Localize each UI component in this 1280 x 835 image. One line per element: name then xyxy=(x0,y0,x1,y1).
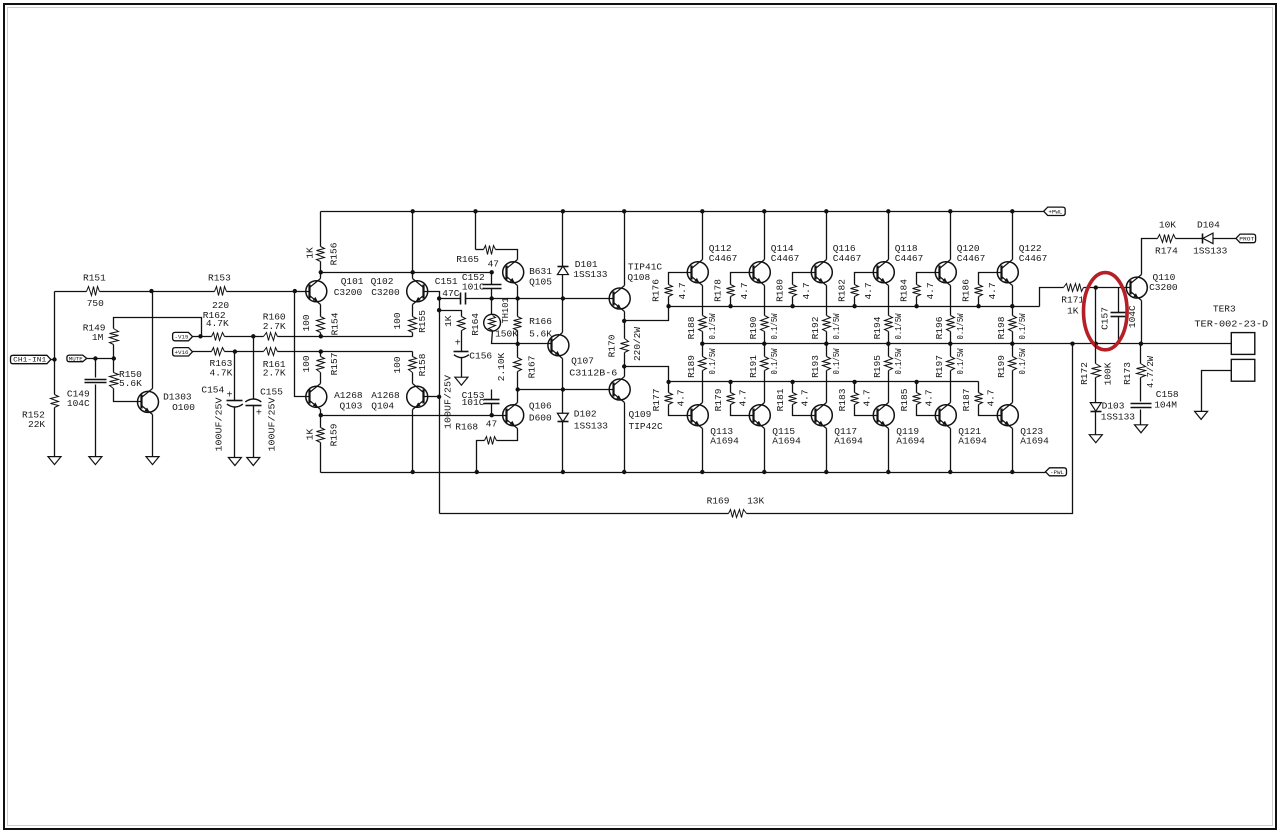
svg-text:C157: C157 xyxy=(1100,307,1111,330)
wire Q120 base xyxy=(917,273,940,285)
wire R154 bottom xyxy=(320,333,322,337)
wire R158 stub xyxy=(412,352,414,357)
svg-text:R174: R174 xyxy=(1155,246,1178,257)
wire R179 to rail xyxy=(730,382,732,393)
resistor R168 47 xyxy=(485,437,497,445)
wire R197 to Q121 emitter xyxy=(950,371,952,403)
svg-text:O100: O100 xyxy=(172,402,195,413)
resistor R151 xyxy=(87,287,100,296)
wire R164 to C156 xyxy=(461,331,463,352)
svg-text:C3200: C3200 xyxy=(371,287,400,298)
wire -V15 line b xyxy=(225,336,264,338)
wire Q115 collector xyxy=(764,429,766,473)
svg-text:C4467: C4467 xyxy=(895,253,924,264)
svg-text:150K: 150K xyxy=(495,329,518,340)
svg-text:1K: 1K xyxy=(305,429,316,441)
transistor Q122 C4467 xyxy=(997,262,1018,283)
wire mute line xyxy=(87,358,114,360)
wire R165 drop xyxy=(475,212,477,250)
svg-text:0.1/5W: 0.1/5W xyxy=(1017,313,1028,339)
ground C155 xyxy=(247,458,260,466)
node R166 bottom xyxy=(516,342,520,346)
svg-text:2.7K: 2.7K xyxy=(263,321,286,332)
svg-text:D104: D104 xyxy=(1197,219,1220,230)
svg-text:1SS133: 1SS133 xyxy=(1101,412,1136,423)
wire input riser xyxy=(54,292,56,360)
node R186 rail xyxy=(976,304,980,308)
svg-text:B631: B631 xyxy=(529,266,552,277)
node R183 rail xyxy=(852,380,856,384)
node R179 rail xyxy=(728,380,732,384)
node R182 rail xyxy=(852,304,856,308)
svg-text:4.7: 4.7 xyxy=(987,282,998,299)
svg-text:R196: R196 xyxy=(934,316,945,339)
transistor D1303 O100 xyxy=(138,391,159,412)
resistor R159 1K xyxy=(317,428,325,443)
node R180 rail xyxy=(790,304,794,308)
svg-text:D102: D102 xyxy=(574,409,597,420)
svg-text:1K: 1K xyxy=(443,315,454,327)
svg-text:TIP42C: TIP42C xyxy=(629,421,664,432)
svg-text:Q108: Q108 xyxy=(627,272,650,283)
node R154 bottom xyxy=(319,334,323,338)
svg-text:R179: R179 xyxy=(713,388,724,411)
wire C149 upper xyxy=(95,359,97,378)
wire R152 top xyxy=(54,360,56,395)
wire R185 to rail xyxy=(916,382,918,393)
wire R193 to Q117 emitter xyxy=(826,371,828,403)
svg-text:2.7K: 2.7K xyxy=(263,368,286,379)
node C155 tap xyxy=(251,334,255,338)
svg-text:TER-002-23-D: TER-002-23-D xyxy=(1194,319,1268,330)
wire Q110 emitter xyxy=(1141,301,1143,344)
svg-text:A1694: A1694 xyxy=(710,436,739,447)
wire Q110 collector riser xyxy=(1142,239,1158,275)
wire R158 to Q104 xyxy=(412,373,414,384)
svg-text:R156: R156 xyxy=(328,242,339,265)
wire Q122 collector xyxy=(1012,212,1014,260)
wire R164 jog xyxy=(440,311,462,317)
node feedback top xyxy=(437,296,441,300)
resistor R181 4.7 xyxy=(789,393,797,405)
transistor Q120 C4467 xyxy=(935,262,956,283)
svg-text:100: 100 xyxy=(301,355,312,372)
resistor R167 2.10K xyxy=(517,344,519,358)
svg-text:+: + xyxy=(455,338,461,349)
node Q103 collector line xyxy=(319,413,323,417)
svg-text:C4467: C4467 xyxy=(833,253,862,264)
wire Q118 emitter xyxy=(888,286,890,316)
wire upper base rail xyxy=(669,306,1040,308)
transistor Q118 C4467 xyxy=(873,262,894,283)
svg-text:C4467: C4467 xyxy=(771,253,800,264)
svg-text:47: 47 xyxy=(486,419,497,430)
svg-text:0.1/5W: 0.1/5W xyxy=(769,348,780,374)
resistor R169 13K xyxy=(729,510,747,518)
wire R187 to rail xyxy=(978,382,980,393)
svg-text:13K: 13K xyxy=(747,496,764,507)
connector TER3 pin 2 xyxy=(1231,359,1255,381)
transistor Q102 C3200 xyxy=(407,281,428,302)
node R172 output rail xyxy=(1094,342,1098,346)
node C152 bottom xyxy=(490,296,494,300)
wire R152 to ground xyxy=(54,408,56,457)
resistor R196 0.1/5W xyxy=(947,316,955,332)
wire Q103 collector to line xyxy=(320,410,322,428)
wire D104 to PROT xyxy=(1213,238,1237,240)
svg-text:R167: R167 xyxy=(527,356,538,379)
wire Q103 base drop xyxy=(295,292,310,397)
svg-text:0.1/5W: 0.1/5W xyxy=(831,348,842,374)
resistor R186 4.7 xyxy=(975,285,983,297)
tag +PWL xyxy=(1044,207,1066,215)
wire Q106 base line xyxy=(321,415,507,417)
wire R178 to rail xyxy=(730,297,732,307)
wire TER3 pin2 to ground xyxy=(1202,371,1232,412)
svg-text:R181: R181 xyxy=(775,388,786,411)
node R150 top xyxy=(112,356,116,360)
node R151/R153 xyxy=(149,289,153,293)
node top rail col Q122 xyxy=(1010,209,1014,213)
svg-text:R172: R172 xyxy=(1079,362,1090,385)
svg-text:R193: R193 xyxy=(810,355,821,378)
ground D1303 xyxy=(146,457,159,465)
node C152 top xyxy=(490,270,494,274)
wire Q102 collector riser xyxy=(412,212,414,279)
wire Q114 collector xyxy=(764,212,766,260)
wire Q118 collector xyxy=(888,212,890,260)
svg-text:0.1/5W: 0.1/5W xyxy=(769,313,780,339)
diode D104 1SS133 xyxy=(1203,233,1213,244)
wire Q112 base xyxy=(669,273,692,285)
node R172 top xyxy=(1094,285,1098,289)
svg-text:0.1/5W: 0.1/5W xyxy=(893,348,904,374)
ground C154 xyxy=(228,458,241,466)
wire Q101 emitter xyxy=(320,305,322,317)
wire Q122 emitter xyxy=(1012,286,1014,316)
node Q102 top rail xyxy=(411,209,415,213)
capacitor C151 47C xyxy=(460,293,462,305)
svg-text:4.7K: 4.7K xyxy=(210,368,233,379)
svg-text:10K: 10K xyxy=(1159,219,1176,230)
wire R150 upper xyxy=(113,359,115,373)
svg-text:D1303: D1303 xyxy=(163,392,192,403)
svg-text:4.7: 4.7 xyxy=(800,389,811,406)
wire R195 to Q119 emitter xyxy=(888,371,890,403)
svg-text:R183: R183 xyxy=(837,388,848,411)
node output rail Q120 xyxy=(948,342,952,346)
node top rail col Q118 xyxy=(886,209,890,213)
wire Q113 collector xyxy=(702,429,704,473)
node output rail Q122 xyxy=(1010,342,1014,346)
wire Q121 base xyxy=(917,405,940,416)
svg-text:Q105: Q105 xyxy=(529,276,552,287)
node D102 top xyxy=(561,387,565,391)
wire C151 line b xyxy=(466,298,518,300)
svg-text:Q104: Q104 xyxy=(371,401,394,412)
resistor R170 220/2W xyxy=(621,339,629,353)
svg-text:C156: C156 xyxy=(469,350,492,361)
node Q110 emitter rail xyxy=(1139,342,1143,346)
wire R170 bottom xyxy=(624,353,626,377)
wire R149 top riser xyxy=(114,318,202,337)
wire Q117 collector xyxy=(826,429,828,473)
svg-text:5.6K: 5.6K xyxy=(529,329,552,340)
svg-text:0.1/5W: 0.1/5W xyxy=(893,313,904,339)
wire R171 to Q110 base xyxy=(1084,287,1131,289)
node R168 bottom rail xyxy=(475,470,479,474)
node Q122 emitter rail cross xyxy=(1010,304,1014,308)
node C149 top xyxy=(93,356,97,360)
svg-text:47C: 47C xyxy=(442,288,459,299)
svg-text:0.1/5W: 0.1/5W xyxy=(831,313,842,339)
resistor R193 0.1/5W xyxy=(826,344,828,357)
resistor R176 4.7 xyxy=(665,285,673,297)
wire Q117 base xyxy=(793,405,816,416)
transistor Q109 TIP42C xyxy=(609,379,630,400)
resistor R183 4.7 xyxy=(851,393,859,405)
svg-text:C3200: C3200 xyxy=(334,287,363,298)
wire -V15 line c xyxy=(278,336,413,338)
resistor R197 0.1/5W xyxy=(950,344,952,357)
wire R176 to rail xyxy=(668,297,670,307)
svg-text:0.1/5W: 0.1/5W xyxy=(707,313,718,339)
svg-text:C4467: C4467 xyxy=(957,253,986,264)
svg-text:1SS133: 1SS133 xyxy=(1193,246,1228,257)
svg-text:4.7: 4.7 xyxy=(925,282,936,299)
svg-text:104M: 104M xyxy=(1154,399,1177,410)
node Q104 bottom rail xyxy=(411,470,415,474)
node output rail Q114 xyxy=(762,342,766,346)
transistor Q110 C3200 xyxy=(1126,277,1147,298)
svg-text:-PWL: -PWL xyxy=(1050,470,1064,476)
resistor R194 0.1/5W xyxy=(885,316,893,332)
wire R157 stub xyxy=(320,352,322,357)
node R178 rail xyxy=(728,304,732,308)
svg-text:4.7: 4.7 xyxy=(986,389,997,406)
svg-text:R188: R188 xyxy=(686,316,697,339)
svg-text:R153: R153 xyxy=(208,272,231,283)
svg-text:R182: R182 xyxy=(837,279,848,302)
wire Q116 emitter xyxy=(826,286,828,316)
resistor R153 xyxy=(215,287,227,296)
resistor R155 100 xyxy=(409,317,417,333)
svg-text:C155: C155 xyxy=(260,387,283,398)
svg-text:0.1/5W: 0.1/5W xyxy=(1017,348,1028,374)
wire Q106 emitter to R168 xyxy=(497,429,518,441)
svg-text:101C: 101C xyxy=(462,397,485,408)
wire R169 to feedback column xyxy=(440,513,729,515)
ground D103 xyxy=(1089,435,1102,443)
resistor R156 1K xyxy=(317,247,325,262)
wire Q102 base jog xyxy=(424,292,440,299)
wire R149 to mute line xyxy=(113,345,115,359)
node top rail col Q112 xyxy=(700,209,704,213)
tag PROT xyxy=(1236,234,1256,243)
node D101 top rail xyxy=(561,209,565,213)
wire jog to lower base rail xyxy=(625,367,669,382)
node Q101 base xyxy=(293,289,297,293)
wire base rail jog to R171 xyxy=(1040,288,1064,307)
node feedback R164 tap xyxy=(437,308,441,312)
svg-text:C4467: C4467 xyxy=(709,253,738,264)
svg-text:R177: R177 xyxy=(651,389,662,412)
svg-text:R184: R184 xyxy=(899,279,910,302)
svg-text:C3200: C3200 xyxy=(1149,282,1178,293)
node top rail col Q120 xyxy=(948,209,952,213)
svg-text:R176: R176 xyxy=(651,279,662,302)
svg-text:R199: R199 xyxy=(996,355,1007,378)
wire to Q108 base xyxy=(563,298,614,300)
transistor Q116 C4467 xyxy=(811,262,832,283)
transistor Q106 D600 xyxy=(503,405,524,426)
wire R183 to rail xyxy=(854,382,856,393)
wire Q108 emitter xyxy=(624,312,626,339)
wire Q115 base xyxy=(731,405,754,416)
svg-text:+PWL: +PWL xyxy=(1048,209,1062,215)
resistor R198 0.1/5W xyxy=(1009,316,1017,332)
svg-text:R180: R180 xyxy=(775,279,786,302)
wire D103 to ground xyxy=(1095,412,1097,435)
ground C158 xyxy=(1135,425,1148,433)
svg-text:R166: R166 xyxy=(529,316,552,327)
ground R152 xyxy=(48,457,61,465)
wire lower base rail xyxy=(669,381,979,383)
node R167 bottom xyxy=(516,387,520,391)
svg-text:4.7: 4.7 xyxy=(677,282,688,299)
resistor R189 0.1/5W xyxy=(702,344,704,357)
svg-text:0.1/5W: 0.1/5W xyxy=(707,348,718,374)
node R157 top xyxy=(319,349,323,353)
wire Q120 collector xyxy=(950,212,952,260)
capacitor C149 xyxy=(85,379,107,381)
svg-text:C151: C151 xyxy=(435,276,458,287)
capacitor C154 100UF/25V xyxy=(234,352,236,401)
svg-text:100UF/25V: 100UF/25V xyxy=(213,397,224,451)
resistor R154 100 xyxy=(317,317,325,333)
svg-text:R194: R194 xyxy=(872,316,883,339)
svg-text:R170: R170 xyxy=(607,334,618,357)
resistor R162 4.7K xyxy=(212,333,225,341)
svg-text:R197: R197 xyxy=(934,355,945,378)
svg-text:R189: R189 xyxy=(686,355,697,378)
svg-text:100: 100 xyxy=(392,312,403,329)
resistor R185 4.7 xyxy=(913,393,921,405)
resistor R191 0.1/5W xyxy=(764,344,766,357)
svg-text:R151: R151 xyxy=(83,272,106,283)
resistor R199 0.1/5W xyxy=(1012,344,1014,357)
svg-text:R158: R158 xyxy=(417,353,428,376)
transistor Q123 A1694 xyxy=(997,405,1018,426)
svg-text:+: + xyxy=(226,391,232,402)
wire R150 to D1303 base xyxy=(114,389,142,402)
tag +V16 xyxy=(173,348,193,356)
resistor R179 4.7 xyxy=(727,393,735,405)
wire R173 to C158 xyxy=(1140,378,1142,402)
resistor R182 4.7 xyxy=(851,285,859,297)
capacitor C152 101C xyxy=(491,273,493,285)
wire R151 line left xyxy=(55,291,87,293)
svg-text:C4467: C4467 xyxy=(1019,253,1048,264)
svg-text:100: 100 xyxy=(392,356,403,373)
svg-text:4.7: 4.7 xyxy=(801,282,812,299)
node D102 bottom rail xyxy=(561,470,565,474)
wire top rail xyxy=(321,211,1044,213)
wire Q104 base xyxy=(424,396,440,398)
svg-text:1K: 1K xyxy=(305,247,316,259)
svg-text:TER3: TER3 xyxy=(1213,304,1236,315)
wire top rail left corner xyxy=(320,212,322,247)
svg-text:4.7: 4.7 xyxy=(738,389,749,406)
wire R186 to rail xyxy=(978,297,980,307)
node top rail col Q116 xyxy=(824,209,828,213)
node Q109 bottom rail xyxy=(622,470,626,474)
svg-text:Q107: Q107 xyxy=(571,356,594,367)
wire feedback column xyxy=(439,299,441,514)
wire C158 to ground xyxy=(1140,410,1142,425)
svg-text:R171: R171 xyxy=(1061,295,1084,306)
wire Q113 base xyxy=(669,405,692,416)
svg-text:MUTE: MUTE xyxy=(69,357,83,363)
svg-text:R155: R155 xyxy=(417,310,428,333)
wire R181 to rail xyxy=(792,382,794,393)
transistor Q115 A1694 xyxy=(749,405,770,426)
svg-text:Q101: Q101 xyxy=(341,276,364,287)
thermistor TH101 150K xyxy=(491,299,493,315)
wire -V15 line a xyxy=(193,336,212,338)
node R165 top xyxy=(473,209,477,213)
resistor R160 2.7K xyxy=(264,333,278,341)
wire R180 to rail xyxy=(792,297,794,307)
svg-text:4.7: 4.7 xyxy=(863,282,874,299)
node Q101 collector xyxy=(319,270,323,274)
svg-text:4.7: 4.7 xyxy=(676,389,687,406)
wire R153 to base node xyxy=(227,291,295,293)
resistor R195 0.1/5W xyxy=(888,344,890,357)
wire Q118 base xyxy=(855,273,878,285)
svg-text:R169: R169 xyxy=(707,496,730,507)
svg-text:TH101: TH101 xyxy=(500,297,511,323)
wire C149 lower xyxy=(95,385,97,457)
resistor R173 4.7/2W xyxy=(1140,344,1142,364)
svg-text:R159: R159 xyxy=(328,423,339,446)
wire Q119 base xyxy=(855,405,878,416)
wire Q121 collector xyxy=(950,429,952,473)
svg-text:R198: R198 xyxy=(996,316,1007,339)
node R169 output rail xyxy=(1070,342,1074,346)
wire R156 to collector node xyxy=(320,262,322,279)
svg-text:5.6K: 5.6K xyxy=(119,378,142,389)
svg-text:1SS133: 1SS133 xyxy=(574,420,609,431)
svg-text:D600: D600 xyxy=(529,412,552,423)
resistor R174 10K xyxy=(1158,235,1176,243)
resistor R163 4.7K xyxy=(212,348,225,356)
svg-text:R187: R187 xyxy=(961,389,972,412)
svg-text:R165: R165 xyxy=(456,254,479,265)
svg-text:R164: R164 xyxy=(470,313,481,336)
capacitor C158 104M xyxy=(1131,403,1152,405)
resistor R177 4.7 xyxy=(665,393,673,405)
resistor R161 2.7K xyxy=(264,348,278,356)
wire R172 to D103 xyxy=(1095,378,1097,403)
wire Q116 base xyxy=(793,273,816,285)
wire TH101 to Q107 base line xyxy=(492,331,552,344)
svg-text:4.7/2W: 4.7/2W xyxy=(1145,356,1156,388)
svg-text:R185: R185 xyxy=(899,388,910,411)
svg-text:A1268: A1268 xyxy=(371,390,400,401)
wire Q120 emitter xyxy=(950,286,952,316)
transistor Q119 A1694 xyxy=(873,405,894,426)
